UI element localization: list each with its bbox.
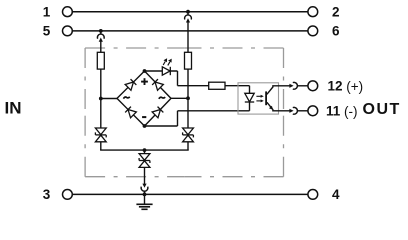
status LED emission arrow 2 xyxy=(168,59,172,66)
terminal circle 3 xyxy=(63,190,73,200)
junction dot line 3 earth xyxy=(143,193,147,197)
junction dot bridge bottom xyxy=(143,124,147,128)
wire: left branch from line 5 down to bridge left node and lower TVS xyxy=(101,41,117,128)
junction dot line5/left branch xyxy=(99,29,103,33)
wire: line 5-6 xyxy=(72,30,308,32)
TVS suppressor diode left xyxy=(95,128,106,142)
svg-text:IN: IN xyxy=(5,99,22,118)
terminal circle 6 xyxy=(308,26,318,36)
junction dot bottom rail xyxy=(143,148,147,152)
plug connector output 11 xyxy=(289,107,308,114)
junction dot bridge top xyxy=(143,69,147,73)
plug connector on line 3 (earth branch) xyxy=(141,184,148,195)
svg-text:12 (+): 12 (+) xyxy=(328,79,364,94)
terminal circle 12 xyxy=(308,81,318,91)
terminal circle 11 xyxy=(308,106,318,116)
status LED diode xyxy=(162,67,170,75)
svg-text:11 (-): 11 (-) xyxy=(326,104,358,119)
ground symbol xyxy=(136,204,152,209)
plug connector on line 5 (left branch) xyxy=(97,31,104,42)
bridge - label xyxy=(142,116,146,118)
svg-text:6: 6 xyxy=(332,24,340,39)
bridge ~ label left xyxy=(123,97,129,99)
optocoupler LED xyxy=(245,93,254,102)
bridge diode D1 (lower-left to top) xyxy=(125,79,136,90)
junction dot line1/right branch xyxy=(186,10,190,14)
optocoupler coupling arrow 2 xyxy=(256,99,263,102)
plug connector on line 1 (right branch) xyxy=(185,12,192,23)
wire: line 3-4 xyxy=(72,193,308,195)
terminal circle 2 xyxy=(308,7,318,17)
bridge diode D4 (bottom to right) xyxy=(152,107,163,118)
TVS suppressor diode center xyxy=(139,154,150,168)
optocoupler U1 body xyxy=(238,83,279,114)
terminal circle 4 xyxy=(308,190,318,200)
phototransistor Q1 emitter xyxy=(267,102,290,111)
bridge rectifier diamond xyxy=(117,71,171,126)
svg-text:1: 1 xyxy=(43,5,51,20)
resistor R3 (series to optocoupler) xyxy=(209,82,225,89)
bridge + label xyxy=(141,78,148,85)
resistor R1 (left vertical) xyxy=(97,52,104,69)
wire: return from opto LED cathode to bridge - node xyxy=(145,102,250,126)
resistor R2 (right vertical) xyxy=(185,52,192,69)
svg-text:5: 5 xyxy=(43,24,51,39)
wire: right branch from line 1 down to bridge right node and lower TVS xyxy=(171,21,188,128)
bridge ~ label right xyxy=(159,97,165,99)
optocoupler coupling arrow 1 xyxy=(256,95,263,98)
phototransistor Q1 collector xyxy=(267,86,290,95)
phototransistor Q1 base bar xyxy=(265,91,267,105)
wire: LED branch from bridge + to series resistor and optocoupler xyxy=(145,71,250,93)
junction dot bridge left xyxy=(99,97,103,101)
status LED emission arrow 1 xyxy=(163,58,167,65)
svg-text:3: 3 xyxy=(43,187,51,202)
terminal circle 1 xyxy=(63,7,73,17)
TVS suppressor diode right xyxy=(183,128,194,142)
junction dot bridge right xyxy=(186,96,190,100)
wire: center earth branch through bottom TVS to line 3 and ground xyxy=(144,167,146,204)
bridge diode D2 (right to top) xyxy=(152,79,163,90)
terminal circle 5 xyxy=(63,26,73,36)
svg-text:4: 4 xyxy=(332,187,340,202)
plug connector output 12 xyxy=(289,82,308,89)
bridge diode D3 (bottom to left) xyxy=(125,107,136,118)
svg-text:OUT: OUT xyxy=(363,101,401,118)
svg-text:2: 2 xyxy=(332,5,340,20)
dash-dot enclosure box xyxy=(85,48,283,177)
wire: line 1-2 xyxy=(72,11,308,13)
wire: bottom rail joining TVS diodes xyxy=(100,142,189,154)
